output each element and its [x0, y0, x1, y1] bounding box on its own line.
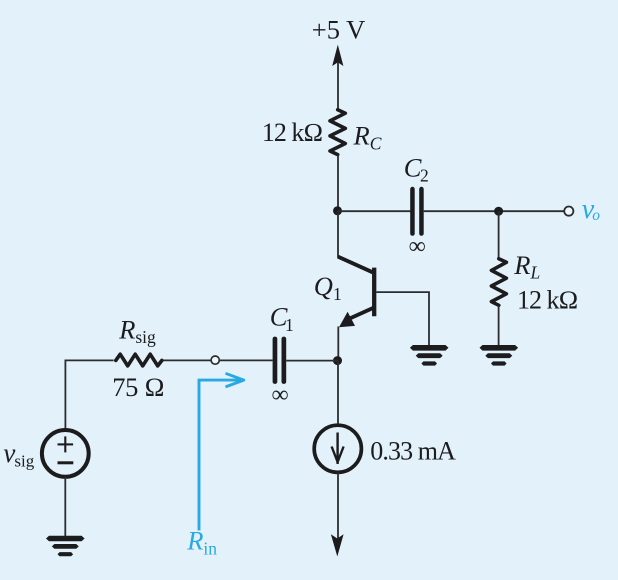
wire RC to node A [337, 155, 339, 212]
wire node C to current source [337, 361, 339, 426]
+5 V supply arrow [332, 45, 343, 66]
resistor RC [330, 110, 345, 155]
transistor Q1 [338, 257, 374, 320]
wire Rsig to open node [162, 359, 211, 361]
resistor Rsig [116, 354, 162, 366]
current source inner arrow [332, 433, 344, 465]
ground (vsig) [46, 536, 85, 557]
output terminal open circle [564, 207, 573, 216]
emitter wire to node C [337, 327, 339, 362]
Rin blue arrow [199, 373, 244, 530]
wire node A to C2 [338, 210, 411, 212]
svg-text:75 Ω: 75 Ω [112, 372, 164, 402]
wire RL to ground [498, 306, 500, 346]
source vsig [42, 430, 89, 477]
capacitor C1 [273, 337, 287, 384]
wire supply to RC [337, 62, 339, 110]
wire open node to C1 [220, 359, 273, 361]
node A junction dot [333, 206, 342, 215]
node C junction dot [333, 356, 342, 365]
ground (RL) [480, 345, 519, 366]
input open circle node [211, 356, 219, 364]
wire node A to collector [337, 211, 339, 258]
wire vsig to ground [64, 477, 66, 537]
vsig minus sign [58, 461, 74, 464]
wire C2 to output node [424, 210, 564, 212]
svg-text:+5 V: +5 V [312, 15, 365, 45]
current source 0.33 mA [314, 425, 361, 472]
wire Rsig to vsig [65, 360, 113, 429]
svg-text:12 kΩ: 12 kΩ [262, 118, 323, 147]
ground (base) [410, 345, 449, 366]
vsig plus sign [58, 436, 74, 452]
resistor RL [491, 259, 506, 306]
Q1 emitter arrowhead [339, 312, 355, 328]
svg-text:0.33 mA: 0.33 mA [370, 436, 456, 465]
svg-text:∞: ∞ [271, 382, 288, 408]
capacitor C2 [410, 187, 424, 236]
base lead wire [376, 292, 429, 345]
wire current source down [337, 472, 339, 541]
node B junction dot (RL tap) [494, 207, 503, 216]
wire C1 to node C [286, 360, 338, 362]
bottom arrowhead [331, 534, 344, 556]
wire node B to RL [498, 211, 500, 259]
svg-text:12 kΩ: 12 kΩ [517, 285, 578, 314]
svg-text:∞: ∞ [409, 233, 426, 259]
